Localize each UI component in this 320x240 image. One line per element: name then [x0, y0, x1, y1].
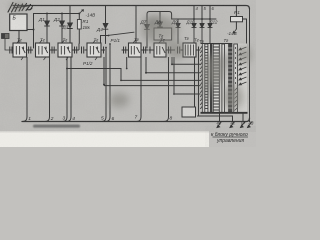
switch P1/1 arm	[109, 32, 134, 35]
capacitor C3 between Tg2 and Tg3	[50, 47, 58, 54]
output drop wires	[219, 113, 221, 122]
block bottom edge	[201, 112, 248, 114]
diode D4 column	[105, 6, 107, 44]
trigger cell Tg3	[58, 43, 72, 57]
staple wire with D7 leg	[147, 12, 172, 49]
wire through cell row	[5, 39, 13, 51]
wire 3	[63, 57, 68, 122]
diode D10	[192, 19, 196, 44]
stepping switch block	[200, 44, 247, 114]
relay coil P1	[231, 17, 243, 22]
trigger cell Tg1	[13, 43, 27, 57]
dark striped bank D	[228, 44, 232, 113]
-14V bus	[34, 13, 80, 15]
input connector blob	[2, 34, 10, 39]
block background	[201, 44, 248, 114]
wire 6	[106, 44, 111, 122]
scanned page background	[0, 0, 256, 147]
capacitor C9 input of Tg6	[149, 47, 155, 54]
ladder bank B	[213, 44, 219, 113]
contact column E	[234, 44, 238, 113]
wire from C12 down to link wire	[198, 54, 200, 117]
dark bar	[210, 44, 212, 113]
scan dirt blobs	[9, 3, 251, 109]
diode D9	[176, 19, 180, 44]
wire 1	[23, 57, 28, 122]
frame top edge	[13, 6, 250, 10]
cell row	[2, 31, 202, 61]
shadow smudge under bus	[33, 125, 80, 128]
vertical wire x136 to switch	[135, 6, 137, 45]
trigger cell Tg7	[183, 43, 196, 57]
cell Tg7 internal contact bars	[185, 45, 193, 56]
trigger cell Tg4	[87, 43, 101, 57]
capacitor C7 before Tg5	[122, 47, 129, 54]
staircase sub-box bottom	[182, 107, 196, 117]
small box Tg above cell row	[154, 28, 172, 40]
diode D1	[45, 21, 50, 26]
diode D3 column	[69, 6, 71, 44]
trigger cell Tg6	[154, 43, 166, 57]
feeder x126.7	[126, 57, 128, 69]
capacitor C4 after Tg3	[72, 44, 79, 54]
contact rail hatched left	[200, 44, 202, 113]
wire B bottom	[18, 31, 20, 44]
wire from relay to wiper column	[243, 19, 247, 113]
diode D8 column	[159, 12, 161, 29]
bottom bus (frame bottom)	[22, 118, 250, 122]
terminal stub 5	[201, 6, 203, 20]
cell Tg4 internals	[90, 46, 99, 55]
mid wire W5	[174, 57, 203, 94]
diode D12	[208, 19, 212, 44]
film grain overlay	[0, 0, 256, 132]
terminal stub 4	[193, 6, 195, 20]
long terminal wires to bottom bus	[23, 13, 212, 122]
mid wire W2	[104, 57, 203, 86]
block B (top-left box)	[10, 14, 27, 31]
handwritten note top-left	[8, 3, 33, 13]
cell Tg6 internals	[157, 46, 165, 55]
capacitor C11 before Tg7	[178, 47, 184, 54]
block top edge	[201, 43, 233, 45]
resistor R1	[77, 20, 81, 30]
diode D2 column	[61, 14, 63, 44]
mid wire W3	[172, 57, 203, 64]
junction dots	[33, 13, 212, 95]
capacitor C2 between Tg1 and Tg2	[27, 47, 34, 54]
cell Tg1 internals	[16, 46, 25, 55]
cell Tg5 internals	[131, 46, 139, 55]
wire from B to -14V bus	[27, 14, 34, 49]
capacitor C8 between Tg5 and Tg6	[141, 47, 148, 54]
capacitor C5 before Tg4	[82, 47, 88, 54]
wire 4	[67, 57, 72, 122]
capacitor C12 after Tg7	[196, 47, 201, 54]
wire 8	[164, 57, 169, 122]
trigger cell Tg5	[129, 43, 142, 57]
wire 7	[137, 57, 142, 122]
diode D1 column	[46, 14, 48, 44]
diode D4	[103, 24, 108, 30]
cell Tg3 internals	[61, 46, 70, 55]
contact column C	[222, 44, 225, 113]
-14V arrow end	[79, 10, 83, 14]
diode D11	[200, 19, 204, 44]
-14V arrow under relay	[233, 29, 236, 33]
wiper arrows	[239, 47, 247, 85]
switch P1/1 wire	[101, 36, 109, 45]
mid wire W4	[146, 57, 203, 73]
capacitor C1 input of Tg1	[10, 47, 12, 54]
wire 2	[45, 57, 50, 122]
frame right edge	[249, 9, 251, 118]
diode D8	[158, 22, 163, 27]
diode D2	[60, 21, 65, 26]
terminal stub 6	[209, 6, 211, 20]
relay feed wire	[235, 6, 237, 30]
contact column A	[205, 44, 208, 113]
cell Tg2 internals	[39, 46, 48, 55]
capacitor C10 after Tg6	[166, 47, 175, 54]
output arrows bottom right	[217, 122, 252, 128]
cell label leader ticks	[17, 40, 162, 61]
white paper strip at bottom	[0, 132, 209, 148]
diode D7	[145, 25, 150, 30]
top-right mini bus	[172, 18, 216, 20]
trigger cell Tg2	[36, 43, 50, 57]
mid wire W1	[67, 69, 203, 81]
link wire under block	[197, 116, 233, 122]
wire from Tg7 down to sub-box	[194, 57, 196, 107]
capacitor C6 after Tg4	[101, 47, 105, 54]
resistor R1 column	[78, 14, 80, 44]
diode D3	[68, 23, 73, 29]
wire 5	[102, 47, 107, 122]
